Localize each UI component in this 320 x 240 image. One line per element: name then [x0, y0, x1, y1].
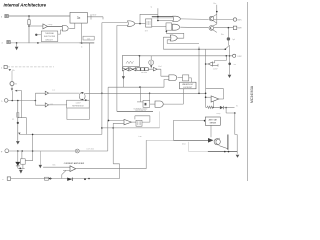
pin GND (left, second) [2, 40, 11, 44]
sense resistor symbol [75, 149, 79, 153]
svg-text:o.oo: o.oo [52, 89, 55, 91]
wire G2 out [135, 23, 146, 25]
wire oscillator feedback vertical x=117 [117, 25, 128, 111]
wire 3x bottom drop [81, 23, 83, 43]
current limit source [39, 151, 41, 165]
wire CA output long [76, 140, 146, 168]
kink arrow into bottom rail [18, 133, 20, 135]
rail y=87 [108, 79, 169, 120]
wire Q1 to pin SWC [214, 18, 233, 20]
wire box down to driver [210, 125, 212, 137]
latch box [146, 19, 152, 27]
svg-text:0.17 ohm: 0.17 ohm [87, 149, 95, 151]
small component left of thermal box [35, 34, 37, 36]
svg-text:comp: comp [216, 113, 220, 115]
vertical x=205.6 [205, 49, 207, 107]
svg-text:Vc: Vc [236, 106, 238, 108]
wire G1 out to 3x box [69, 23, 75, 28]
svg-text:REFERENCE: REFERENCE [72, 105, 84, 107]
vertical x=113.2 to minus loop [113, 123, 119, 178]
wire gate B out to Q2 [181, 26, 209, 29]
comparator B2 [45, 103, 48, 107]
gate C (latch lower OR) [170, 35, 177, 41]
gate B (second output) [172, 24, 180, 30]
cross couple wires [166, 31, 183, 38]
oscillator box [123, 55, 140, 66]
small marker under Vth pin [8, 69, 11, 71]
wire into current amplifier [43, 167, 70, 178]
gate E (mid AND) [155, 101, 163, 107]
wire gate E output up to UVLO [164, 89, 184, 104]
svg-text:OSCILLATOR: OSCILLATOR [135, 109, 147, 112]
diode after resistor [220, 106, 223, 109]
ground under switch [228, 75, 232, 78]
pin DRC [233, 54, 236, 57]
svg-text:ANTI SAT: ANTI SAT [209, 118, 218, 121]
node divider tap [28, 25, 30, 27]
C2 inputs [108, 121, 124, 124]
dark rail segment under small box [80, 42, 95, 44]
gate A (top output) [173, 16, 181, 21]
svg-text:THERMAL: THERMAL [45, 32, 54, 35]
wire rail from latch to switch [163, 48, 225, 50]
feedback loop over C2 [135, 116, 150, 122]
wire down right from node [226, 108, 235, 113]
C2 out to box X [132, 121, 137, 123]
ground under resistor chain [16, 141, 20, 144]
small box component right of zener [21, 151, 23, 159]
svg-text:R1: R1 [12, 119, 14, 121]
wire thermal box to G1 input [58, 30, 63, 34]
small cluster on minus rail [45, 177, 49, 180]
svg-text:Vref: Vref [158, 65, 162, 68]
svg-text:n: n [1, 67, 2, 69]
small box before gate B [166, 23, 172, 30]
transistor Q1 [209, 16, 214, 21]
faint links bottom right [189, 142, 208, 152]
wire box left loop down [66, 108, 68, 120]
diode pair DP1 [122, 68, 128, 71]
node down from C2 rail [107, 120, 109, 151]
box 1.25V reference [67, 100, 90, 108]
box pulse latch cell [143, 100, 150, 107]
wire GND rail [10, 42, 94, 44]
vertical x=35.4 taps to comparators [35, 93, 45, 105]
pin + (supply) [1, 149, 9, 153]
gate B second input stub [165, 30, 167, 31]
rail y=127.9 [102, 127, 160, 129]
long rail y=93.3 [85, 92, 206, 94]
gate D (AND after reference) [169, 75, 177, 81]
vertical x=21.7 down [21, 91, 23, 118]
pin SWE [233, 26, 237, 29]
wire tap to comparator A1 [29, 25, 43, 27]
svg-text:Internal Architecture: Internal Architecture [4, 2, 47, 7]
svg-text:DRC: DRC [238, 56, 243, 58]
ground bottom right [236, 155, 240, 158]
svg-text:SWC: SWC [237, 19, 242, 21]
wire oscillator feedback vertical x=102 [19, 23, 127, 135]
svg-text:+: + [1, 149, 3, 153]
wire 3x output [87, 17, 103, 20]
svg-text:ib: ib [81, 47, 82, 49]
switch blade [225, 45, 229, 49]
gate G1 [62, 26, 68, 31]
pin - (supply return) [2, 177, 11, 181]
plus rail [9, 150, 108, 152]
wire latch cell to gate E [150, 103, 155, 105]
node on VIN rail [28, 15, 30, 17]
svg-text:SHUTDOWN: SHUTDOWN [44, 36, 56, 38]
svg-text:101: 101 [87, 38, 90, 40]
svg-text:SENSE: SENSE [210, 123, 217, 125]
discharge leg with arrow [122, 66, 125, 87]
wire A1 out [48, 25, 63, 27]
svg-text:LOCKOUT: LOCKOUT [183, 87, 193, 89]
comparator C2 (oscillator) [124, 119, 132, 124]
wire gate A out to Q1 [181, 18, 209, 21]
stub from rail87 down [139, 87, 141, 102]
error amplifier EA [211, 96, 219, 102]
svg-text:CURRENT AMPLIFIER: CURRENT AMPLIFIER [64, 162, 85, 165]
svg-text:Vth: Vth [12, 69, 15, 72]
zener diode leg [17, 151, 19, 162]
rail y=120.4 to UVLO2 [173, 120, 204, 140]
rail y=55.8 to pin DRC [140, 55, 233, 57]
wire gate D out [178, 77, 183, 79]
wire box D to UVLO [189, 78, 192, 82]
wire left-middle long vertical from GND rail [67, 43, 89, 120]
wires of reference row [148, 69, 169, 76]
wire VIN rail [8, 15, 70, 17]
current source from rail into diode row [150, 56, 152, 69]
EA input stubs [206, 96, 212, 98]
switch vertical to ground [229, 45, 231, 74]
C3 input from rail55 [213, 56, 227, 63]
box UVLO [180, 82, 197, 89]
svg-text:MC34063A: MC34063A [250, 85, 254, 103]
ground under zener [19, 170, 23, 174]
driver transistor Q3 cluster [208, 138, 214, 143]
svg-text:Vref: Vref [92, 14, 96, 17]
wire Q2 to pin SWE [214, 27, 233, 29]
comparator A1 [43, 24, 48, 29]
wire B2 out to reference box left [49, 104, 67, 106]
op-amp current amplifier [70, 166, 76, 172]
svg-text:CIRCUIT: CIRCUIT [45, 40, 54, 42]
dashed wire from Vth pin [7, 66, 54, 68]
box thermal shutdown [41, 31, 58, 42]
small box on GND rail [83, 36, 94, 40]
svg-text:Rsc: Rsc [221, 34, 224, 36]
vertical x=32.6 from bottom rail down [32, 134, 34, 161]
pin SWC [233, 18, 236, 21]
stub from long rail into latch cell [149, 93, 151, 100]
box 3x regulator [70, 12, 87, 23]
wire into pulse latch [137, 101, 143, 103]
wire bottom drive (dark) [173, 139, 208, 141]
right middle vertical x=199 [198, 47, 200, 94]
svg-text:set ratio: set ratio [141, 71, 147, 74]
wire feedback over latch [140, 8, 158, 23]
pin VIN (top left) [1, 14, 8, 18]
svg-text:Ith: Ith [15, 83, 17, 86]
diode pair DP2 [130, 68, 136, 71]
right page border [247, 2, 249, 181]
faint vertical x=159.5 [159, 111, 161, 128]
dark diode on minus rail [67, 178, 72, 181]
ground symbol under GND rail [16, 43, 18, 47]
wire B1 out to oval [49, 92, 80, 94]
minus rail [11, 178, 120, 180]
svg-text:Ipk: Ipk [233, 39, 235, 41]
box after gate D [183, 75, 189, 81]
svg-text:−: − [2, 177, 4, 181]
svg-text:SWE: SWE [237, 28, 242, 30]
svg-text:comp: comp [48, 24, 52, 26]
node VREF stub [90, 14, 92, 19]
svg-text:1.25V: 1.25V [213, 69, 218, 71]
box comparator bias [205, 117, 220, 125]
vertical from oval into reference box [81, 99, 83, 102]
oval component O1 [79, 92, 85, 100]
svg-text:Vcc: Vcc [213, 3, 216, 5]
pin CII (comparator input, left) [1, 99, 8, 103]
current source I1 [11, 71, 13, 82]
bus latch to gates (dark) [152, 16, 173, 18]
corner path to error amp output [206, 89, 224, 99]
comparator B1 [45, 91, 48, 95]
diode D2 [153, 67, 157, 71]
gate G2 (OR into latch) [128, 21, 136, 26]
C3 reference input [213, 64, 218, 67]
vertical resistor chain x=17.8 [17, 101, 19, 141]
arrow into node and wire to x=21.7 [15, 90, 18, 92]
svg-text:drive: drive [182, 143, 186, 146]
comparator C3 pointing left [208, 62, 212, 66]
svg-text:UNDERVOLT: UNDERVOLT [182, 84, 194, 86]
resistor row below EA [206, 106, 220, 108]
svg-text:Ilim: Ilim [53, 164, 56, 166]
box X after C2 [136, 120, 142, 126]
vertical from current source to pin rail [11, 91, 13, 101]
wire CII rail [8, 100, 35, 102]
wire dark bottom of inner loop [117, 110, 153, 112]
current source on switch leg [227, 28, 229, 45]
gate C inputs and inner loop [163, 37, 199, 49]
pin Vth (dashed) [1, 65, 7, 69]
resistor R1 (vertical at x=29) [28, 16, 30, 43]
svg-text:3x: 3x [77, 16, 81, 20]
svg-text:t on: t on [139, 135, 142, 138]
svg-text:1.25V: 1.25V [76, 103, 82, 105]
resistor boxes in reference string [137, 68, 140, 71]
transistor Q2 [209, 26, 214, 31]
divider tap [18, 118, 27, 135]
